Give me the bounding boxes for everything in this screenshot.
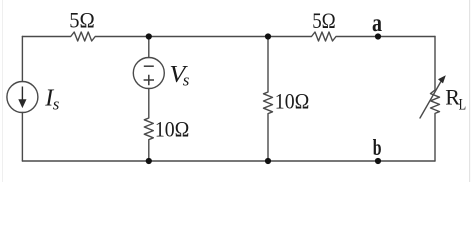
svg-text:5Ω: 5Ω [312,8,336,33]
svg-text:s: s [183,71,190,90]
svg-text:s: s [53,95,60,114]
svg-text:10Ω: 10Ω [275,89,310,114]
svg-text:5Ω: 5Ω [69,8,95,33]
svg-text:a: a [372,10,382,37]
svg-text:b: b [373,135,382,161]
svg-text:10Ω: 10Ω [155,117,190,142]
svg-text:L: L [459,96,467,113]
